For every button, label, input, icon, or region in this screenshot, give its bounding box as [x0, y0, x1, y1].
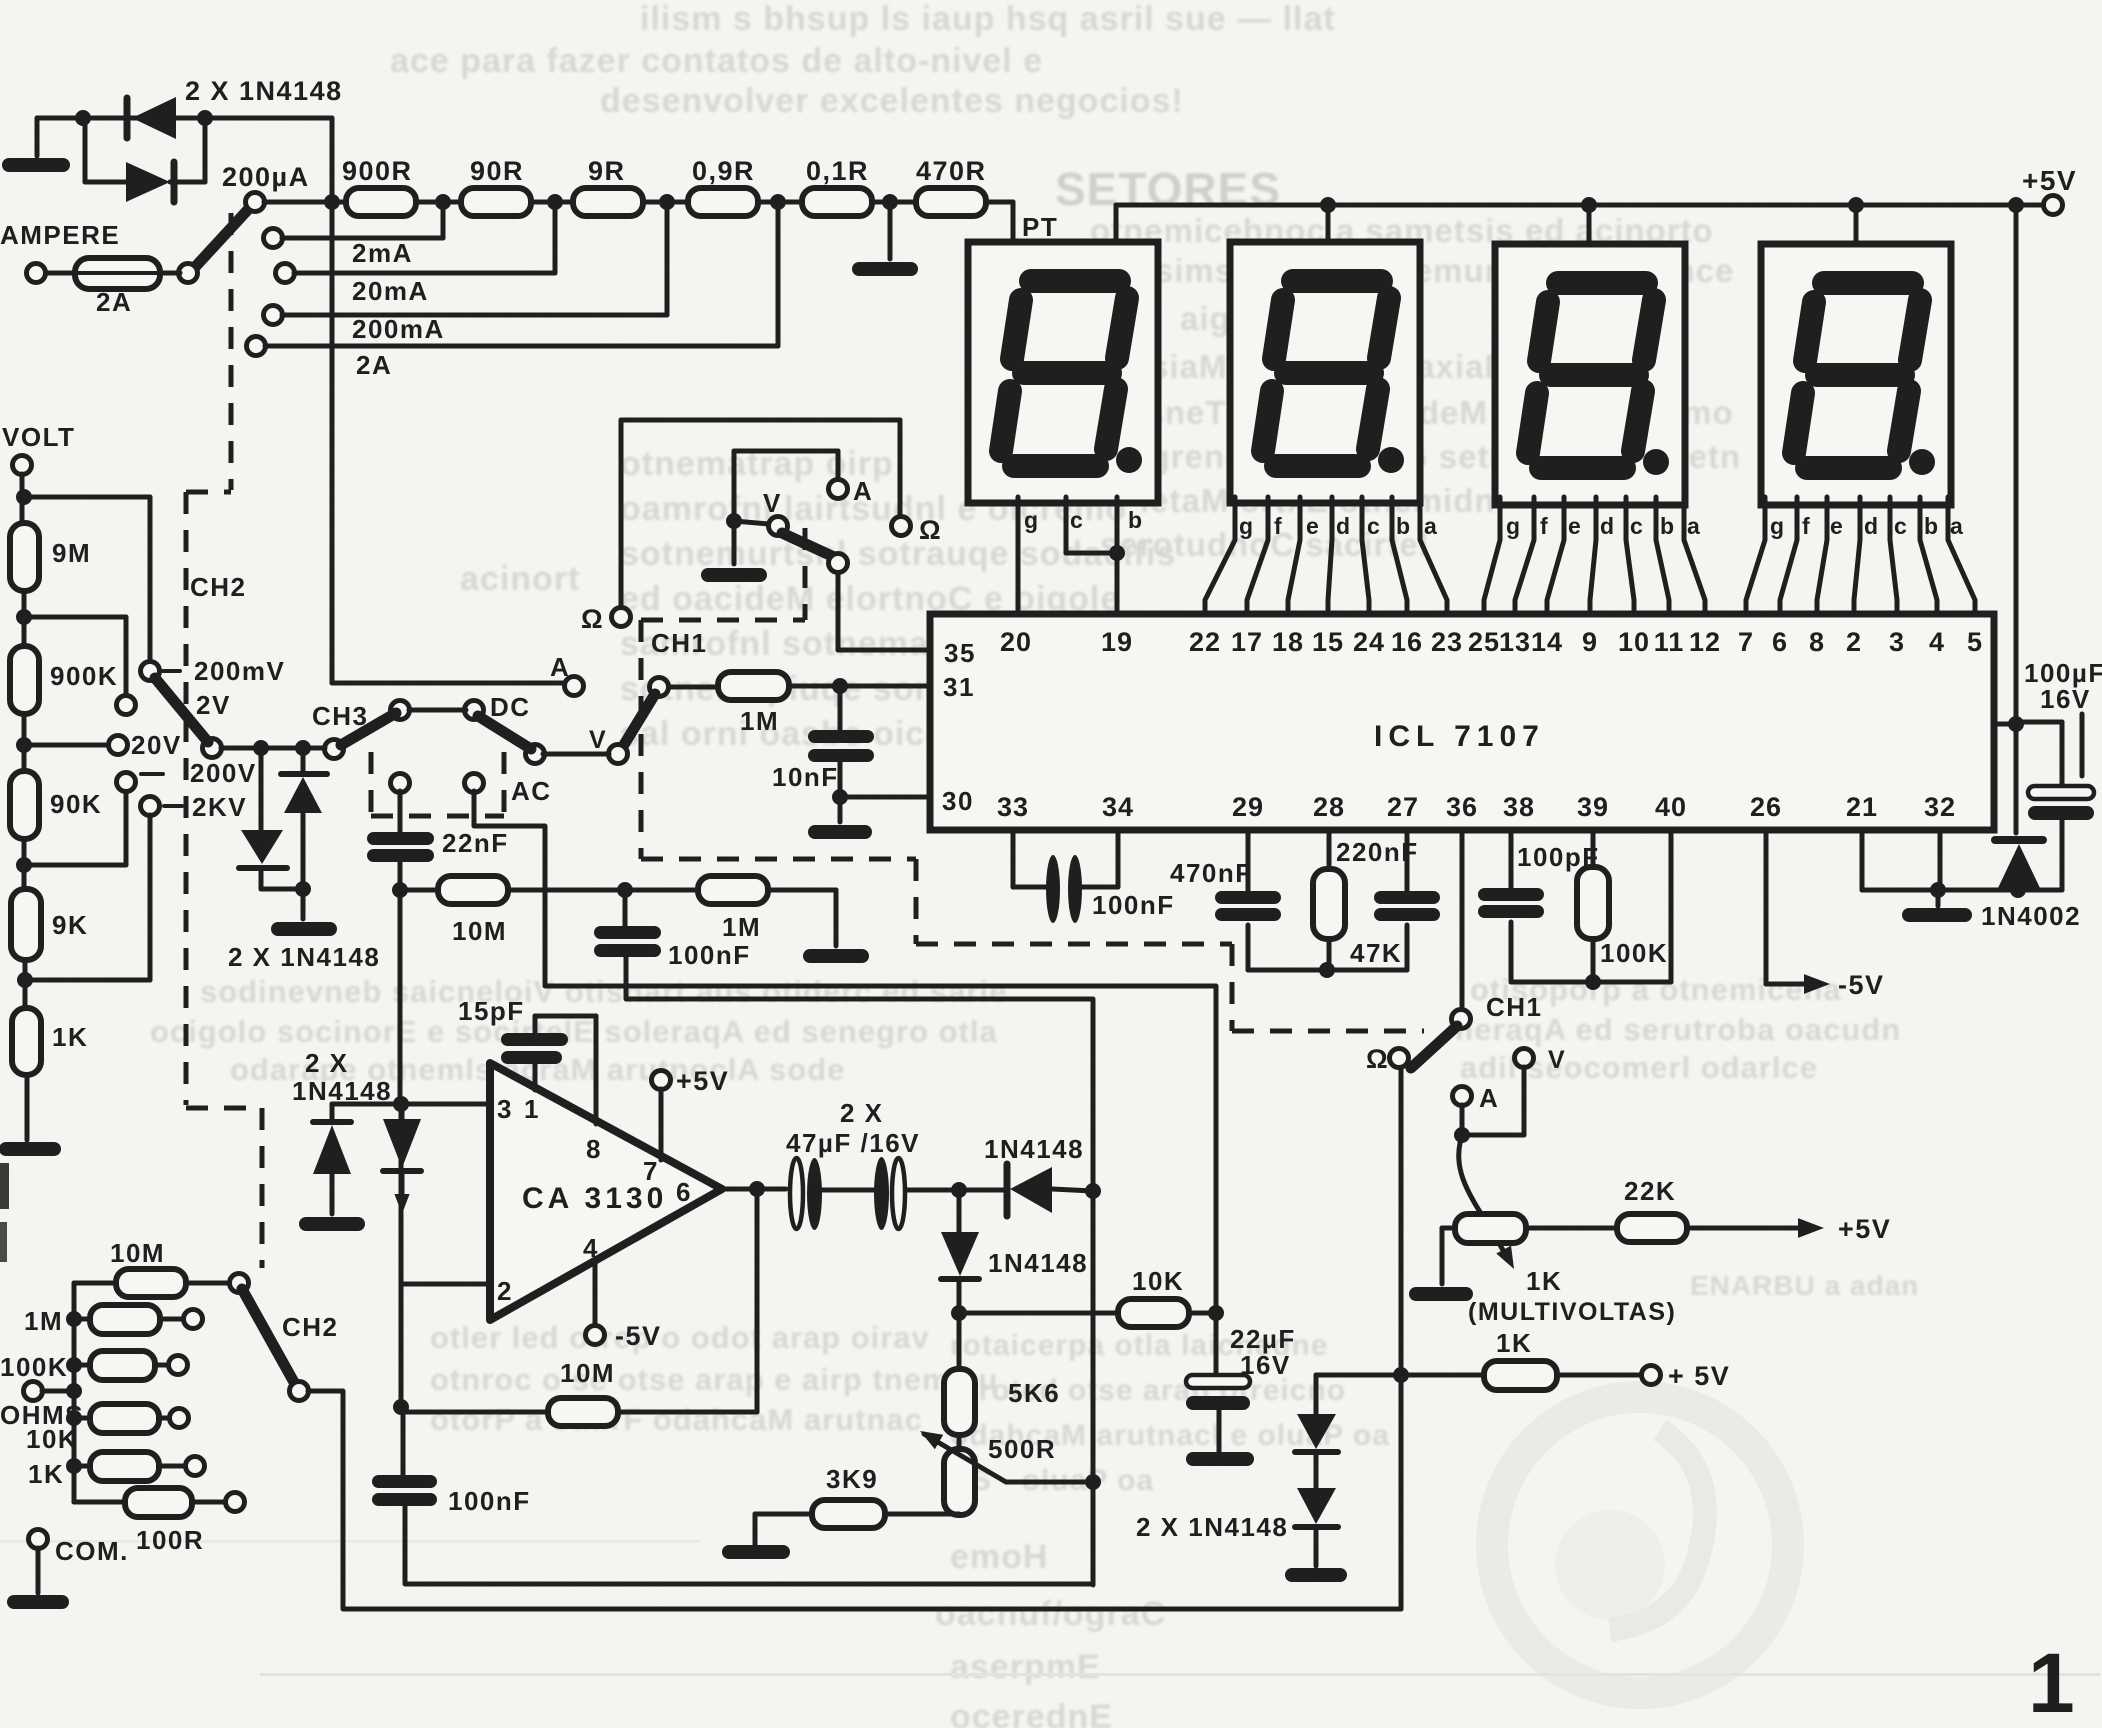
svg-text:V: V: [589, 726, 607, 754]
svg-text:acinort: acinort: [460, 560, 580, 598]
svg-text:1M: 1M: [740, 706, 779, 736]
svg-text:1K: 1K: [1496, 1328, 1532, 1358]
svg-text:d: d: [1864, 513, 1880, 539]
svg-text:Ω: Ω: [581, 604, 604, 634]
svg-text:100nF: 100nF: [1092, 890, 1175, 920]
svg-text:21: 21: [1846, 792, 1878, 822]
svg-text:1M: 1M: [24, 1306, 63, 1336]
svg-text:90R: 90R: [470, 156, 524, 186]
svg-text:15: 15: [1312, 627, 1344, 657]
svg-text:6: 6: [676, 1177, 692, 1207]
svg-text:5K6: 5K6: [1008, 1378, 1060, 1408]
svg-text:25: 25: [1468, 627, 1500, 657]
svg-text:CH2: CH2: [190, 572, 247, 602]
svg-text:aserpmE: aserpmE: [950, 1648, 1101, 1686]
svg-text:10nF: 10nF: [772, 762, 839, 792]
svg-text:d: d: [1600, 513, 1616, 539]
svg-text:36: 36: [1446, 792, 1478, 822]
svg-text:2 X 1N4148: 2 X 1N4148: [1136, 1512, 1288, 1542]
svg-text:1M: 1M: [722, 912, 761, 942]
svg-text:32: 32: [1924, 792, 1956, 822]
svg-text:c: c: [1630, 513, 1644, 539]
svg-text:2 X: 2 X: [305, 1048, 349, 1078]
svg-text:V: V: [1548, 1046, 1566, 1074]
svg-text:e: e: [1568, 513, 1582, 539]
svg-text:AMPERE: AMPERE: [0, 220, 120, 250]
svg-text:18: 18: [1272, 627, 1304, 657]
svg-text:COM.: COM.: [55, 1536, 129, 1566]
svg-text:c: c: [1070, 507, 1084, 533]
svg-text:8: 8: [586, 1134, 602, 1164]
svg-text:500R: 500R: [988, 1434, 1056, 1464]
svg-text:oacnuf/ograC: oacnuf/ograC: [935, 1595, 1166, 1633]
svg-text:CH2: CH2: [282, 1312, 339, 1342]
svg-text:470nF: 470nF: [1170, 858, 1253, 888]
svg-text:16V: 16V: [2040, 684, 2091, 714]
svg-text:1K: 1K: [1526, 1266, 1562, 1296]
svg-text:33: 33: [997, 792, 1029, 822]
svg-text:8: 8: [1809, 627, 1825, 657]
svg-text:5: 5: [1967, 627, 1983, 657]
svg-text:19: 19: [1101, 627, 1133, 657]
svg-text:2 X 1N4148: 2 X 1N4148: [185, 76, 343, 106]
svg-text:a: a: [1950, 513, 1964, 539]
svg-text:10M: 10M: [452, 916, 507, 946]
svg-text:g: g: [1770, 513, 1786, 539]
svg-text:A: A: [1479, 1083, 1499, 1113]
svg-text:90K: 90K: [50, 789, 102, 819]
svg-text:f: f: [1274, 513, 1283, 539]
svg-text:16: 16: [1391, 627, 1423, 657]
svg-text:sodinevneb saicneloiV otisna: sodinevneb saicneloiV otisnart aus otide…: [200, 974, 1007, 1009]
svg-text:CH3: CH3: [312, 701, 369, 731]
svg-text:34: 34: [1102, 792, 1134, 822]
svg-text:7: 7: [1738, 627, 1754, 657]
svg-text:38: 38: [1503, 792, 1535, 822]
svg-text:A: A: [853, 476, 873, 506]
svg-text:+5V: +5V: [2022, 165, 2077, 196]
svg-text:Ω: Ω: [1366, 1044, 1389, 1074]
svg-text:g: g: [1506, 513, 1522, 539]
svg-text:28: 28: [1313, 792, 1345, 822]
svg-text:0,1R: 0,1R: [806, 156, 869, 186]
svg-text:2: 2: [497, 1276, 513, 1306]
svg-text:AC: AC: [511, 776, 552, 806]
svg-text:1N4002: 1N4002: [1981, 901, 2081, 931]
svg-text:100R: 100R: [136, 1525, 204, 1555]
svg-text:2 X 1N4148: 2 X 1N4148: [228, 942, 380, 972]
svg-text:+5V: +5V: [676, 1066, 729, 1096]
svg-text:47K: 47K: [1350, 938, 1402, 968]
svg-text:b: b: [1924, 513, 1940, 539]
svg-text:6: 6: [1772, 627, 1788, 657]
svg-text:CH1: CH1: [651, 628, 708, 658]
svg-text:ilism s bhsup ls iaup hsq asri: ilism s bhsup ls iaup hsq asril sue — ll…: [640, 0, 1336, 38]
svg-text:22: 22: [1189, 627, 1221, 657]
svg-text:otnroc o se otse arap e: otnroc o se otse arap e airp tnemicu: [430, 1362, 998, 1397]
svg-text:otorP a satirF odahcaM aru: otorP a satirF odahcaM arutnac: [430, 1402, 923, 1437]
svg-text:PT: PT: [1022, 212, 1058, 242]
svg-text:10: 10: [1618, 627, 1650, 657]
svg-text:200mV: 200mV: [194, 656, 285, 686]
svg-text:+5V: +5V: [1838, 1214, 1891, 1244]
svg-text:1: 1: [2028, 1636, 2076, 1728]
svg-text:26: 26: [1750, 792, 1782, 822]
svg-text:9R: 9R: [588, 156, 626, 186]
svg-text:-5V: -5V: [615, 1321, 662, 1351]
svg-text:e: e: [1830, 513, 1844, 539]
svg-text:100K: 100K: [0, 1352, 68, 1382]
svg-text:900K: 900K: [50, 661, 118, 691]
svg-text:31: 31: [943, 672, 975, 702]
svg-text:2A: 2A: [356, 350, 392, 380]
svg-text:4: 4: [583, 1233, 599, 1263]
svg-text:200V: 200V: [190, 758, 257, 788]
svg-text:35: 35: [944, 638, 976, 668]
svg-text:0,9R: 0,9R: [692, 156, 755, 186]
svg-text:100nF: 100nF: [668, 940, 751, 970]
svg-text:15pF: 15pF: [458, 996, 525, 1026]
svg-text:f: f: [1802, 513, 1811, 539]
svg-text:20V: 20V: [131, 730, 182, 760]
svg-text:900R: 900R: [342, 156, 413, 186]
svg-text:e: e: [1306, 513, 1320, 539]
svg-text:2 X: 2 X: [840, 1098, 884, 1128]
svg-text:40: 40: [1655, 792, 1687, 822]
svg-text:Ω: Ω: [919, 515, 942, 545]
svg-text:ENARBU a adan: ENARBU a adan: [1690, 1270, 1919, 1301]
svg-text:otler led otrep o odot ar: otler led otrep o odot arap oirav: [430, 1320, 930, 1355]
svg-text:470R: 470R: [916, 156, 987, 186]
svg-text:3K9: 3K9: [826, 1464, 878, 1494]
svg-text:20: 20: [1000, 627, 1032, 657]
svg-text:1K: 1K: [52, 1022, 88, 1052]
svg-text:f: f: [1540, 513, 1549, 539]
svg-text:CA 3130: CA 3130: [522, 1182, 667, 1215]
svg-text:14: 14: [1531, 627, 1563, 657]
svg-text:27: 27: [1387, 792, 1419, 822]
svg-text:4: 4: [1929, 627, 1945, 657]
svg-text:39: 39: [1577, 792, 1609, 822]
svg-text:30: 30: [942, 786, 974, 816]
svg-text:12: 12: [1689, 627, 1721, 657]
svg-text:desenvolver excelentes negocio: desenvolver excelentes negocios!: [600, 82, 1184, 120]
svg-text:a: a: [1424, 513, 1438, 539]
svg-text:20mA: 20mA: [352, 276, 429, 306]
svg-text:220nF: 220nF: [1336, 837, 1419, 867]
svg-text:emoH: emoH: [950, 1538, 1048, 1576]
svg-text:g: g: [1024, 507, 1040, 533]
svg-text:3: 3: [1889, 627, 1905, 657]
svg-text:29: 29: [1232, 792, 1264, 822]
svg-text:11: 11: [1654, 627, 1685, 657]
svg-text:2KV: 2KV: [192, 792, 247, 822]
svg-text:9M: 9M: [52, 538, 91, 568]
svg-text:2V: 2V: [196, 690, 231, 720]
svg-text:9K: 9K: [52, 910, 88, 940]
svg-text:c: c: [1367, 513, 1381, 539]
svg-text:VOLT: VOLT: [2, 422, 75, 452]
svg-text:ICL 7107: ICL 7107: [1374, 720, 1545, 753]
svg-text:V: V: [763, 488, 782, 518]
svg-text:c: c: [1894, 513, 1908, 539]
svg-text:ace para fazer contatos de alt: ace para fazer contatos de alto-nivel e: [390, 42, 1043, 80]
svg-text:10K: 10K: [26, 1424, 78, 1454]
svg-text:200µA: 200µA: [222, 162, 310, 192]
svg-text:1N4148: 1N4148: [988, 1248, 1088, 1278]
svg-text:-5V: -5V: [1838, 970, 1885, 1000]
svg-text:2A: 2A: [96, 287, 132, 317]
svg-text:10M: 10M: [560, 1358, 615, 1388]
svg-text:DC: DC: [490, 692, 531, 722]
svg-text:1K: 1K: [28, 1459, 64, 1489]
svg-text:100nF: 100nF: [448, 1486, 531, 1516]
svg-text:100K: 100K: [1600, 938, 1668, 968]
svg-text:2: 2: [1846, 627, 1862, 657]
svg-text:(MULTIVOLTAS): (MULTIVOLTAS): [1468, 1298, 1676, 1326]
svg-text:9: 9: [1582, 627, 1598, 657]
svg-text:1: 1: [524, 1094, 540, 1124]
svg-text:A: A: [550, 652, 570, 682]
svg-text:ocigolo socinorE e socirtel: ocigolo socinorE e socirtelE soleraqA ed…: [150, 1014, 998, 1049]
svg-text:23: 23: [1431, 627, 1463, 657]
svg-text:g: g: [1239, 513, 1255, 539]
svg-text:+ 5V: + 5V: [1668, 1361, 1730, 1391]
svg-text:10K: 10K: [1132, 1266, 1184, 1296]
svg-text:3: 3: [497, 1094, 513, 1124]
svg-text:2mA: 2mA: [352, 238, 413, 268]
svg-text:22nF: 22nF: [442, 828, 509, 858]
svg-text:200mA: 200mA: [352, 314, 445, 344]
svg-text:b: b: [1128, 507, 1144, 533]
svg-text:47µF /16V: 47µF /16V: [786, 1128, 920, 1158]
svg-text:ocerednE: ocerednE: [950, 1698, 1113, 1728]
svg-text:1N4148: 1N4148: [984, 1134, 1084, 1164]
svg-text:CH1: CH1: [1486, 992, 1543, 1022]
svg-text:d: d: [1336, 513, 1352, 539]
svg-text:24: 24: [1353, 627, 1385, 657]
svg-text:b: b: [1660, 513, 1676, 539]
svg-text:10M: 10M: [110, 1238, 165, 1268]
svg-text:a: a: [1687, 513, 1701, 539]
svg-text:13: 13: [1499, 627, 1531, 657]
svg-text:22K: 22K: [1624, 1176, 1676, 1206]
svg-text:17: 17: [1231, 627, 1263, 657]
svg-text:b: b: [1396, 513, 1412, 539]
